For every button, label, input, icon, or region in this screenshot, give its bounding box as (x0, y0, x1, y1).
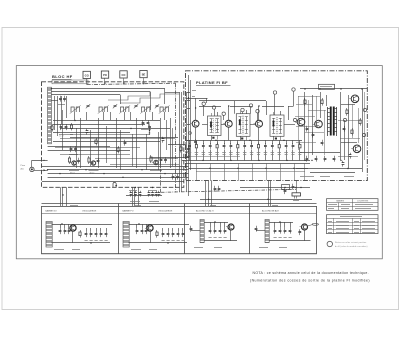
svg-text:ACCORD BE ALTI: ACCORD BE ALTI (262, 210, 279, 213)
svg-text:ACCORD OC ALTI: ACCORD OC ALTI (196, 210, 214, 213)
svg-text:GAMME PO: GAMME PO (122, 209, 134, 212)
svg-text:GO: GO (85, 73, 89, 77)
svg-text:OC: OC (122, 73, 126, 77)
svg-text:BE: BE (142, 73, 146, 77)
svg-text:C1 4,7: C1 4,7 (59, 135, 64, 137)
svg-text:PO: PO (103, 73, 107, 77)
svg-text:GAMME GO: GAMME GO (45, 209, 57, 212)
svg-text:du fil (selon le modele consid: du fil (selon le modele considere) (335, 246, 368, 248)
svg-text:COUVERTES: COUVERTES (357, 201, 369, 203)
svg-text:AF117: AF117 (90, 172, 95, 175)
svg-text:AF117: AF117 (70, 172, 75, 175)
svg-text:Ant.: Ant. (21, 168, 25, 171)
svg-text:(Numérotation des cosses de so: (Numérotation des cosses de sortie de la… (250, 279, 370, 283)
svg-text:OSCILLATEUR: OSCILLATEUR (82, 209, 97, 212)
svg-text:OSCILLATEUR: OSCILLATEUR (158, 209, 173, 212)
svg-text:PLATINE FI BF: PLATINE FI BF (196, 80, 228, 85)
svg-text:BLOC HF: BLOC HF (52, 74, 73, 79)
svg-text:NOTA : ce schéma annule celui: NOTA : ce schéma annule celui de la docu… (253, 271, 369, 275)
svg-text:GAMMES: GAMMES (336, 200, 345, 203)
svg-text:Retirer ou relier suivant posi: Retirer ou relier suivant position (335, 241, 366, 244)
